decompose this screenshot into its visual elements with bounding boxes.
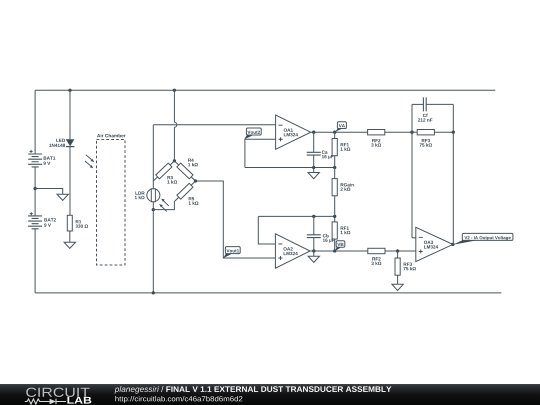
junction bridge top node [173,159,176,162]
op-amp OA1 name label [284,128,293,131]
LED part label [49,144,65,147]
resistor R5 name label [189,197,195,200]
flag VB text [337,243,343,246]
resistor RF2 lower name label [372,257,380,260]
flag VA pointer [335,128,343,132]
flag Vout1 pointer [223,253,233,258]
resistor R4 name label [188,159,194,162]
op-amp OA2 name label [283,247,292,250]
capacitor Cf name label [423,114,428,117]
wire LDR bottom to bottom rail [152,210,154,293]
capacitor Cb [313,216,315,251]
resistor RF2 (upper) [368,130,385,135]
op-amp OA3 plus pin mark [419,249,423,253]
battery BAT2 name label [44,218,56,221]
wire hop: bridge vertical bulges around crossing wire [174,122,177,127]
junction battery midpoint [33,187,36,190]
op-amp OA1 plus pin mark [279,137,283,141]
LDR name label [135,192,144,195]
op-amp OA2 part label [284,252,298,255]
op-amp OA1 part label [284,133,298,136]
wire top rail to bridge top (upper) [173,90,175,122]
resistor RF2 lower value label [371,262,381,265]
battery BAT2 [28,216,42,229]
flag Vout2 box [246,128,261,135]
wire RF2 lower to OA3 plus [385,250,416,252]
LED name label [56,139,65,142]
capacitor Cf [423,97,426,111]
resistor R3 value label [167,180,177,183]
battery BAT2 plus sign [30,212,33,215]
resistor R1 [67,215,72,231]
wire VA node down through RF1 chain [334,132,336,251]
op-amp OA1 body [276,115,311,149]
resistor RF2 (lower) [368,248,385,253]
OA3 feedback top wire right [426,103,453,105]
op-amp OA3 minus pin mark [419,236,423,238]
junction OA3 minus node [410,131,413,134]
left rail inter-battery segment [34,167,36,216]
resistor RF1 upper name label [341,143,349,146]
op-amp OA3 part label [424,245,438,248]
resistor RF3 (feedback) [417,130,434,135]
footer title line [115,386,159,394]
wire top rail to LED [69,90,71,139]
LDR value label [135,196,145,199]
capacitor Cb value label [323,239,335,243]
resistor RF2 upper name label [372,139,380,142]
op-amp OA2 plus pin mark [278,256,282,260]
junction top rail / bridge branch [173,89,176,92]
resistor R4 [177,163,193,179]
op-amp OA2 body [275,234,310,268]
junction LDR bottom [152,208,155,211]
resistor RF2 upper value label [371,143,381,146]
footer url line [115,396,242,403]
resistor R3 name label [167,176,172,179]
ground mid-battery [62,193,64,195]
OA3 feedback top wire left [412,103,423,105]
op-amp OA3 body [416,227,453,261]
wire RF2 upper to RF3 feedback [412,131,417,133]
resistor RF3 ground value label [404,267,416,270]
op-amp OA1 minus pin mark [279,124,283,126]
OA3 feedback right vertical [452,104,454,244]
CircuitLab logo word CIRCUIT [26,388,89,397]
resistor RGain [332,179,337,196]
flag Vout1 text [226,249,239,252]
flag VA box [337,122,346,129]
wire battery midpoint to ground [35,189,63,195]
left rail lower segment [34,229,36,293]
junction bridge right node [194,179,197,182]
resistor RGain value label [340,187,350,190]
LED light arrow 1 [86,155,92,160]
flag VA text [339,124,345,127]
ground below Cb [313,251,315,256]
resistor RF1 upper value label [341,147,351,150]
battery BAT2 value label [44,223,51,226]
op-amp OA3 name label [424,241,433,244]
LDR light arrow 1 [164,201,169,206]
air chamber label [97,134,126,138]
bridge arm R5 wire [174,181,195,202]
wire OA2 output [310,250,368,252]
wire LDR bottom to R5 [153,202,174,210]
ground below Ca [313,168,315,173]
capacitor Ca [313,132,315,167]
resistor RF3 feedback name label [422,139,430,142]
wire RF3 ground leg stub [397,251,399,258]
capacitor Cb name label [323,234,329,237]
bridge arm R4 wire [174,161,195,181]
flag V2 output box [462,233,513,240]
op-amp OA2 minus pin mark [278,243,282,245]
junction feedback right top [452,131,455,134]
wire OA1 output [311,131,368,133]
resistor R5 [177,183,193,199]
battery BAT1 plus sign [30,150,33,153]
junction OA3 output [451,243,454,246]
resistor RF3 ground name label [404,263,412,266]
LED light arrow 2 [85,161,91,166]
wire bridge to OA1 minus [153,124,275,126]
wire bridge left node up [152,125,154,181]
resistor RF1 (lower) [332,222,337,239]
flag Vout1 box [225,247,240,254]
OA2 feedback left wire [258,216,275,244]
resistor RF3 (to ground) [395,258,400,275]
LED D1 1N4148 [66,139,75,146]
capacitor Ca name label [322,151,328,154]
OA2 feedback top wire [258,215,334,217]
bottom rail [35,292,501,294]
wire top rail to bridge top (lower) [173,127,175,161]
wire OA1 plus input [245,139,276,167]
flag VB pointer [335,247,342,251]
wire R1 to ground [69,231,71,242]
resistor RF3 feedback value label [420,143,432,146]
junction bottom rail / bridge [152,291,155,294]
resistor RGain name label [341,183,354,186]
flag Vout2 pointer [244,135,254,140]
left rail upper segment [34,90,36,154]
resistor RF1 lower value label [341,231,351,234]
capacitor Ca value label [322,155,334,159]
top power rail [35,89,495,91]
junction OA1 output / Ca [312,131,315,134]
junction VB node [333,249,336,252]
battery BAT1 value label [43,162,50,165]
CircuitLab logo resistor-diode squiggle [25,399,50,404]
ground below R1 [69,241,71,243]
OA1 bottom reference wire [245,167,335,169]
bridge arm R3 wire [153,161,174,181]
wire OA1 output to RF2 region [385,131,412,133]
junction RF3 ground leg [396,249,399,252]
wire RF3 feedback to output vertical [434,131,453,133]
wire bridge right node to OA2 plus [196,181,276,258]
flag V2 output pointer [453,240,478,245]
wire LED to R1 [69,147,71,216]
resistor R3 [156,163,172,179]
CircuitLab logo word LAB [67,397,91,404]
flag VB box [336,241,345,247]
battery BAT1 name label [44,157,56,160]
junction OA2 feedback / Cb top [312,215,315,218]
LDR light arrow 2 [162,206,167,211]
resistor R1 name label [76,220,82,223]
ground below RF3 [397,283,399,285]
junction Ca bottom / ground [312,166,315,169]
flag Vout2 text [247,131,260,134]
resistor R4 value label [188,163,198,166]
wire RF3 to ground symbol [397,275,399,284]
OA3 feedback left vertical [411,104,413,237]
junction OA2 feedback / RF1 chain [333,215,336,218]
flag V2 output text [464,236,510,240]
air chamber dashed enclosure [97,140,126,266]
junction VA node [333,131,336,134]
junction top rail / LED branch [68,89,71,92]
capacitor Cf value label [418,118,432,121]
footer bar [0,384,540,405]
photoresistor LDR [147,189,160,202]
battery BAT1 [28,154,42,167]
resistor RF1 lower name label [341,227,349,230]
junction OA2 output / Cb bottom [312,249,315,252]
resistor R1 value label [76,224,88,227]
resistor R5 value label [189,201,199,204]
wire left node to LDR [152,181,154,189]
wire LDR to bottom corner [152,202,154,210]
junction OA1 reference / RF1 chain [333,166,336,169]
resistor RF1 (upper) [332,139,337,156]
wire into OA3 minus [412,237,416,239]
